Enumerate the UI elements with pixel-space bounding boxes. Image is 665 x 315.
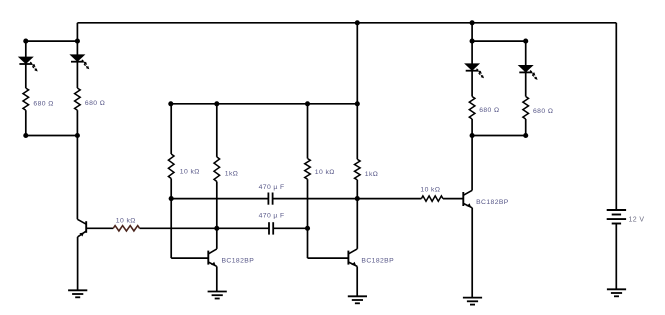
svg-text:1kΩ: 1kΩ <box>225 170 238 177</box>
svg-text:BC182BP: BC182BP <box>361 257 394 264</box>
svg-text:470 µ F: 470 µ F <box>259 212 285 219</box>
svg-text:680 Ω: 680 Ω <box>85 100 105 107</box>
svg-text:680 Ω: 680 Ω <box>533 108 553 115</box>
svg-text:BC182BP: BC182BP <box>476 199 509 206</box>
svg-text:BC182BP: BC182BP <box>222 257 255 264</box>
svg-text:12 V: 12 V <box>629 217 645 224</box>
svg-text:10 kΩ: 10 kΩ <box>315 169 335 176</box>
svg-text:680 Ω: 680 Ω <box>479 107 499 114</box>
svg-text:10 kΩ: 10 kΩ <box>116 217 136 224</box>
svg-text:680 Ω: 680 Ω <box>33 100 53 107</box>
svg-text:10 kΩ: 10 kΩ <box>180 168 200 175</box>
svg-text:10 kΩ: 10 kΩ <box>420 187 440 194</box>
svg-text:470 µ F: 470 µ F <box>259 184 285 191</box>
svg-text:1kΩ: 1kΩ <box>365 171 378 178</box>
